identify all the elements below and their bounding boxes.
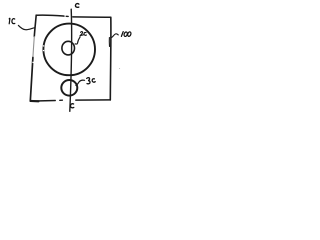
label 2c (80, 32, 83, 36)
left edge white nick (32, 61, 34, 63)
enclosure rectangle left edge (faded middle part) (33, 37, 34, 58)
enclosure rectangle top edge (left part) (36, 15, 64, 16)
big circle scan nick 1 (43, 45, 44, 47)
vertical centerline (70, 9, 72, 111)
enclosure rectangle bottom edge dot (60, 99, 63, 101)
label 1C (8, 18, 11, 23)
label c (bottom) (70, 104, 73, 108)
bottom-left corner thick blob (31, 100, 39, 103)
enclosure rectangle bottom edge (left part) (30, 100, 55, 103)
faint dot right of circle (119, 68, 120, 69)
big circle (43, 24, 95, 76)
small lower circle (61, 80, 77, 96)
enclosure rectangle top edge dot (66, 15, 68, 17)
leader for 100 (111, 34, 118, 38)
enclosure rectangle left edge (upper dark part) (34, 15, 36, 36)
enclosure rectangle bottom edge (right part) (76, 99, 111, 101)
label 3c (86, 77, 95, 84)
leader for 3c (76, 80, 85, 85)
enclosure rectangle right edge (109, 17, 112, 100)
inner circle (62, 41, 75, 55)
label C (top) (75, 4, 78, 8)
enclosure rectangle left edge (lower dark part) (30, 58, 33, 102)
enclosure rectangle top edge (right part) (73, 16, 111, 18)
leader for 1C (18, 25, 34, 29)
label 100 (121, 32, 123, 37)
big circle scan nick 2 (43, 50, 44, 52)
right edge retrace blob (108, 38, 110, 47)
leader for 2c (75, 37, 80, 44)
